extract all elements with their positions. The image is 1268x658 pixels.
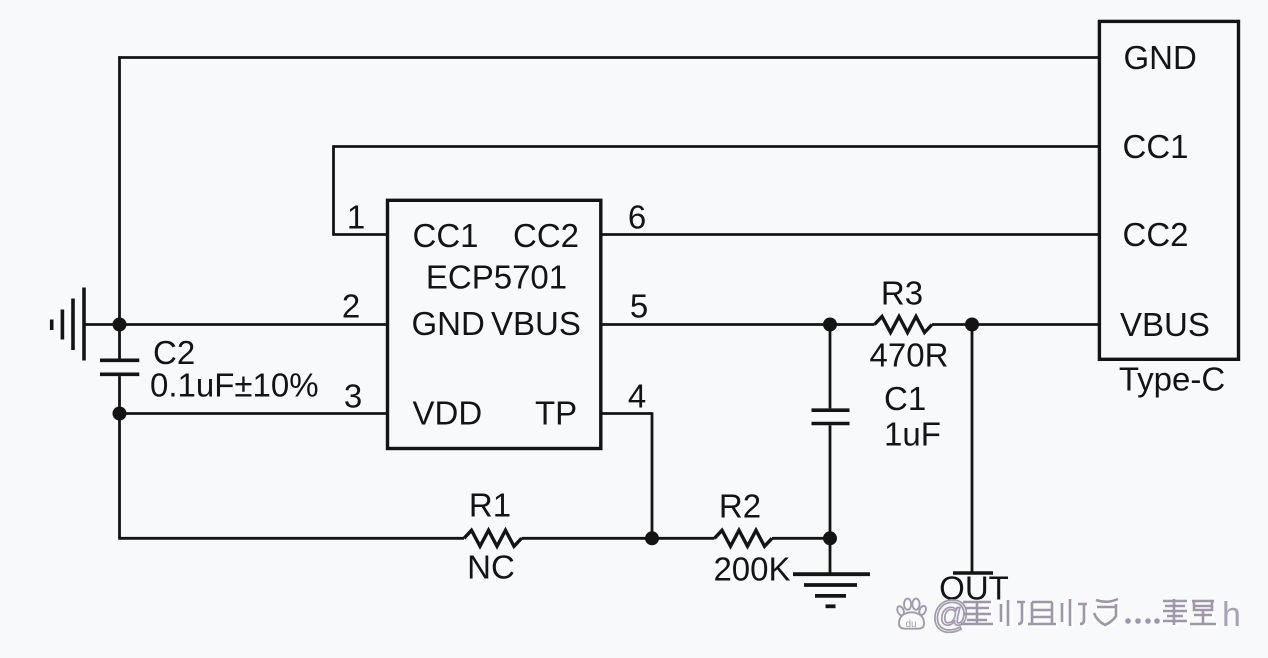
svg-text:C2: C2 [153, 334, 195, 371]
capacitor C1 [812, 325, 850, 539]
watermark paw icon [896, 599, 927, 630]
resistor R3 zigzag [875, 317, 933, 333]
IC U1 ECP5701 box [388, 200, 601, 448]
svg-text:6: 6 [628, 199, 646, 236]
svg-text:1uF: 1uF [884, 416, 941, 453]
watermark CJK strokes (white emboss layer) [963, 601, 1218, 628]
watermark group [896, 594, 1241, 635]
svg-text:Type-C: Type-C [1119, 361, 1225, 398]
wire bottom net left [118, 537, 464, 540]
svg-text:CC2: CC2 [1123, 216, 1189, 253]
wire VBUS net: R3 to Type-C [932, 323, 1099, 326]
svg-text:ECP5701: ECP5701 [426, 259, 567, 296]
svg-text:R3: R3 [881, 275, 923, 312]
wire CC1 net: stub to pin 1 [332, 233, 386, 236]
node junction at GND/C2 [113, 318, 127, 332]
svg-text:VBUS: VBUS [1120, 306, 1210, 343]
resistor R1 zigzag [464, 530, 522, 546]
wire GND to pin 2 [83, 323, 387, 326]
svg-text:4: 4 [628, 378, 646, 415]
watermark CJK strokes (colour layer) [961, 599, 1216, 626]
svg-text:R1: R1 [469, 487, 511, 524]
svg-text:VBUS: VBUS [491, 305, 581, 342]
wire OUT vertical [971, 325, 974, 574]
node junction VDD [113, 407, 127, 421]
wire GND net: top horizontal [118, 56, 1098, 59]
capacitor C2 plates [100, 325, 139, 539]
svg-text:CC1: CC1 [1123, 128, 1189, 165]
wire CC1 net: horizontal to Type-C [334, 145, 1099, 148]
svg-text:CC2: CC2 [513, 217, 579, 254]
svg-text:TP: TP [535, 395, 577, 432]
OUT terminal bar [953, 571, 993, 575]
svg-text:470R: 470R [870, 337, 949, 374]
wire bottom net middle [522, 537, 715, 540]
wire bottom net right [772, 537, 830, 540]
resistor R2 zigzag [715, 530, 773, 546]
svg-text:VDD: VDD [413, 395, 483, 432]
svg-text:NC: NC [467, 549, 515, 586]
svg-text:3: 3 [344, 378, 362, 415]
node junction pin4/bottom [645, 531, 659, 545]
ground symbol bottom [793, 538, 870, 606]
svg-text:h: h [1222, 596, 1241, 634]
wire GND net: left vertical [118, 56, 121, 324]
svg-text:1: 1 [347, 199, 365, 236]
wire VBUS net: pin 5 to R3 [601, 323, 875, 326]
ground symbol left [52, 288, 84, 361]
watermark ellipsis dots [1125, 618, 1160, 624]
svg-text:R2: R2 [719, 488, 761, 525]
svg-text:C1: C1 [884, 380, 926, 417]
svg-text:5: 5 [630, 288, 648, 325]
wire TP pin 4 vertical [651, 412, 654, 538]
svg-text:GND: GND [1124, 39, 1197, 76]
node junction C1 top [823, 318, 837, 332]
svg-text:2: 2 [342, 288, 360, 325]
svg-text:GND: GND [412, 305, 485, 342]
wire CC1 net: vertical drop [332, 145, 335, 234]
svg-text:CC1: CC1 [413, 217, 479, 254]
node junction OUT [965, 318, 979, 332]
wire TP pin 4 horizontal [601, 412, 653, 415]
svg-text:0.1uF±10%: 0.1uF±10% [150, 367, 319, 404]
svg-text:du: du [906, 619, 917, 630]
node junction C1/ground [823, 531, 837, 545]
wire CC2 net: pin 6 to Type-C [601, 233, 1099, 236]
wire VDD pin 3 [120, 412, 387, 415]
connector J1 Type-C box [1099, 21, 1238, 359]
svg-text:200K: 200K [713, 551, 790, 588]
